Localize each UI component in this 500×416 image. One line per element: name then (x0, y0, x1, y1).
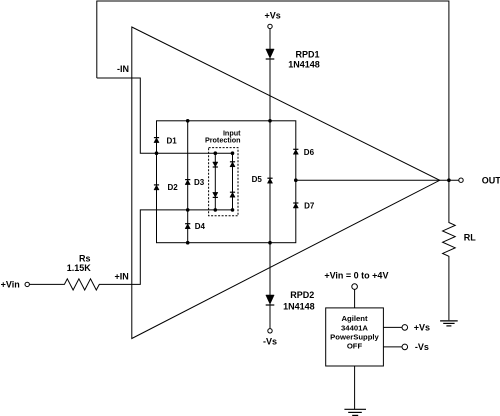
svg-text:+Vs: +Vs (414, 323, 430, 333)
svg-text:-Vs: -Vs (415, 342, 429, 352)
svg-text:OUT: OUT (482, 176, 500, 186)
svg-text:D5: D5 (252, 175, 263, 184)
svg-text:RL: RL (464, 233, 476, 243)
svg-text:Protection: Protection (205, 136, 241, 145)
svg-text:1N4148: 1N4148 (288, 60, 320, 70)
svg-text:1N4148: 1N4148 (283, 301, 315, 311)
svg-text:Agilent: Agilent (341, 314, 367, 323)
svg-text:-Vs: -Vs (263, 337, 277, 347)
svg-text:D4: D4 (195, 222, 206, 231)
svg-text:+Vs: +Vs (264, 10, 280, 20)
svg-text:+IN: +IN (115, 271, 129, 281)
svg-text:D6: D6 (304, 148, 315, 157)
svg-text:Rs: Rs (79, 254, 91, 264)
svg-text:D7: D7 (304, 202, 315, 211)
svg-text:RPD1: RPD1 (295, 49, 319, 59)
svg-text:D3: D3 (194, 178, 205, 187)
svg-text:D2: D2 (168, 183, 179, 192)
svg-text:1.15K: 1.15K (67, 263, 92, 273)
svg-text:-IN: -IN (117, 64, 129, 74)
svg-text:+Vin = 0 to +4V: +Vin = 0 to +4V (324, 270, 388, 280)
svg-text:+Vin: +Vin (1, 280, 20, 290)
svg-text:OFF: OFF (347, 341, 363, 350)
svg-text:D1: D1 (167, 136, 178, 145)
svg-text:34401A: 34401A (341, 323, 368, 332)
svg-text:RPD2: RPD2 (290, 290, 314, 300)
